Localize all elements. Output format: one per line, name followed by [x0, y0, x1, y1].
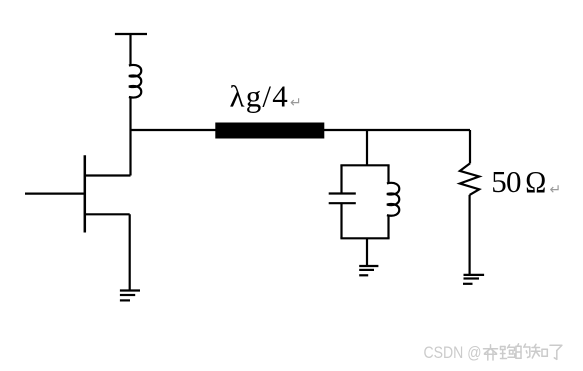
- svg-text:↵: ↵: [290, 94, 302, 110]
- inductor L1 (RF choke): [129, 65, 141, 98]
- wire transmission line to output node: [324, 129, 470, 131]
- ground (tank): [359, 266, 378, 275]
- wire source to ground: [129, 214, 131, 290]
- svg-text:50: 50: [491, 164, 521, 199]
- svg-text:Ω: Ω: [525, 164, 546, 199]
- capacitor C1: [329, 165, 356, 238]
- wire inductor to drain node: [129, 97, 131, 176]
- svg-text:↵: ↵: [550, 181, 562, 197]
- svg-text:λg/4: λg/4: [230, 79, 289, 114]
- ground (resistor): [463, 275, 484, 284]
- watermark: [424, 343, 562, 362]
- transmission line TL1 (λg/4): [215, 123, 324, 139]
- power supply symbol: [115, 33, 147, 35]
- svg-text:CSDN @: CSDN @: [424, 343, 482, 362]
- wire supply to inductor: [129, 34, 131, 66]
- ground (source): [120, 291, 140, 301]
- wire drain node to transmission line: [131, 129, 217, 131]
- wire tank to ground: [366, 238, 368, 266]
- wire output node to resistor: [469, 130, 471, 163]
- wire tank top: [340, 164, 389, 166]
- resistor R1: [460, 163, 479, 195]
- transistor Q1 (FET): [25, 155, 131, 232]
- wire tank bottom: [340, 237, 389, 239]
- wire resistor to ground: [469, 195, 471, 275]
- wire output node to tank: [366, 130, 368, 165]
- inductor L2: [387, 165, 399, 238]
